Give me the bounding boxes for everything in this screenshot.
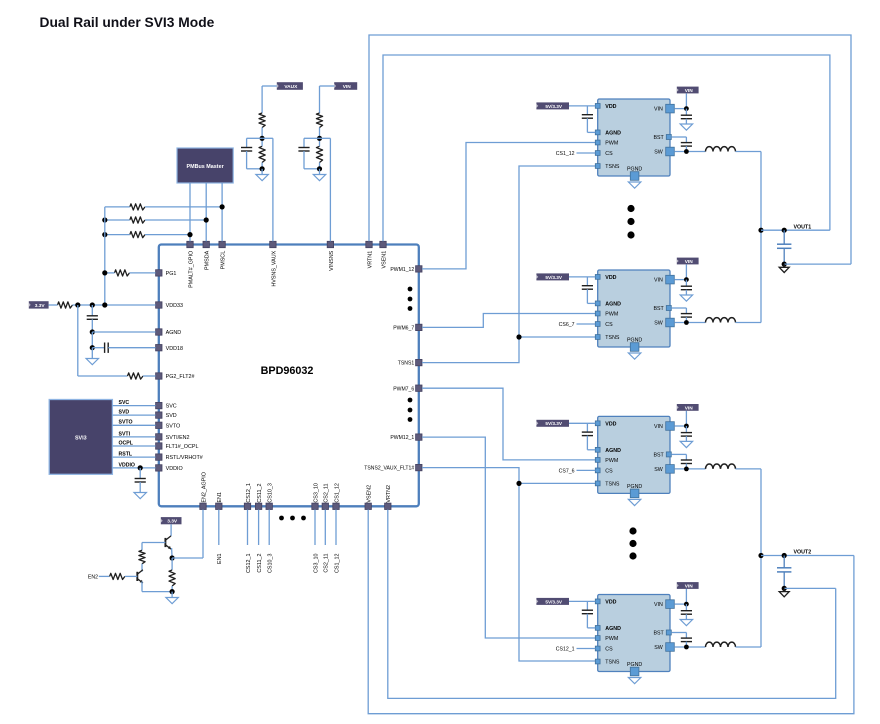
wire to PG2_FLT2# row <box>77 305 79 376</box>
svg-text:VDDIO: VDDIO <box>119 462 135 468</box>
pin PG2_FLT2# <box>156 373 162 379</box>
power stage U2 body <box>598 99 670 176</box>
U3 pin AGND <box>595 301 600 306</box>
svg-text:BST: BST <box>653 631 664 637</box>
power stage U5 body <box>598 595 670 672</box>
wire SVI3 VDDIO <box>112 467 155 469</box>
ground (enable circuit) <box>166 598 178 604</box>
junction VIN node (U2) <box>684 106 689 111</box>
junction VIN bottom node <box>317 166 322 171</box>
wire 3.3V to Q1 collector <box>170 524 172 536</box>
svg-text:5V/3.3V: 5V/3.3V <box>545 599 563 604</box>
junction PMSDA/row2 <box>204 217 209 222</box>
wire VIN lower node <box>319 163 321 169</box>
U3 pin VIN <box>666 275 675 284</box>
net label VAUX (top) <box>277 82 303 90</box>
net label 5V/3.3V (U4) <box>536 420 569 427</box>
capacitor C_OUT2 <box>783 556 785 568</box>
ground (U3 VIN) <box>680 295 692 301</box>
svg-text:CS: CS <box>605 647 613 653</box>
junction VOUT2 cap top <box>782 553 787 558</box>
wire VAUX mid <box>261 128 263 147</box>
wire SVI3 SVC <box>112 405 155 407</box>
resistor R8 (EN2 series) <box>110 573 125 579</box>
pin SVTO <box>156 422 162 428</box>
svg-text:VIN: VIN <box>685 583 694 589</box>
U5 pin AGND <box>595 626 600 631</box>
svg-text:TSNS: TSNS <box>605 660 620 666</box>
svg-text:BST: BST <box>653 453 664 459</box>
wire VIN label to pin <box>685 411 687 426</box>
capacitor C_BST (U4) <box>685 454 687 460</box>
svg-text:EN2: EN2 <box>88 574 98 580</box>
svg-text:VDDIO: VDDIO <box>166 466 183 472</box>
ground (VAUX divider) <box>256 175 268 181</box>
resistor R9 (pull-down) <box>171 558 173 570</box>
U4 pin SW <box>666 465 675 474</box>
capacitor C2 (VDD18) <box>104 343 106 353</box>
svg-text:VINSNS: VINSNS <box>329 250 335 270</box>
wire R8 to Q2 base <box>125 575 137 577</box>
wire EN1 stub <box>218 510 220 546</box>
inductor L1 <box>706 147 736 152</box>
junction bus/row3 <box>102 232 107 237</box>
svg-text:PWM7_6: PWM7_6 <box>393 386 414 392</box>
junction VIN top node <box>317 136 322 141</box>
svg-text:PGND: PGND <box>627 338 642 344</box>
wire VAUX lower node <box>261 163 263 169</box>
wire C1 to AGND row <box>91 319 93 332</box>
junction SW node (U4) <box>684 467 689 472</box>
U3 pin BST <box>666 306 671 311</box>
svg-text:PWM: PWM <box>605 141 618 147</box>
U2 pin BST <box>666 135 671 140</box>
junction bus/PG1 row <box>102 270 107 275</box>
svg-text:VRTN1: VRTN1 <box>367 251 373 269</box>
capacitor VAUX branch <box>247 137 263 139</box>
svg-text:CS1_12: CS1_12 <box>334 554 340 573</box>
svg-text:PMBus Master: PMBus Master <box>187 164 225 170</box>
pin TSNS1 <box>416 359 422 365</box>
svg-text:PGND: PGND <box>627 662 642 668</box>
wire VIN to ground <box>319 169 321 175</box>
pin VSEN2 <box>365 503 371 509</box>
wire Q1 emitter node <box>171 548 174 558</box>
wire VOUT1 return <box>784 263 851 265</box>
svg-text:TSNS1: TSNS1 <box>398 361 415 367</box>
svg-text:Dual Rail under SVI3 Mode: Dual Rail under SVI3 Mode <box>40 15 215 30</box>
ground (U3 PGND) <box>628 353 640 359</box>
wire to ground below C1 <box>91 348 93 359</box>
svg-text:BST: BST <box>653 306 664 312</box>
svg-text:VIN: VIN <box>654 424 663 430</box>
junction VOUT2 cap bottom <box>782 586 787 591</box>
svg-text:PWM1_12: PWM1_12 <box>390 267 414 273</box>
net label VIN (U4) <box>677 404 699 411</box>
junction VOUT2 rail <box>758 553 763 558</box>
wire R6 to PG2_FLT2# pin <box>143 375 156 377</box>
svg-text:CS6_7: CS6_7 <box>559 322 575 328</box>
ground (U4 PGND) <box>628 499 640 505</box>
svg-text:CS12_1: CS12_1 <box>246 554 252 573</box>
wire 5V/3.3V to VDD <box>569 422 595 424</box>
svg-text:SW: SW <box>654 150 663 156</box>
wire SW output <box>674 151 705 153</box>
svg-text:TSNS: TSNS <box>605 335 620 341</box>
ground (VDD33 branch) <box>86 359 98 365</box>
svg-text:TSNS2_VAUX_FLT1#: TSNS2_VAUX_FLT1# <box>364 466 414 472</box>
svg-text:CS1_12: CS1_12 <box>556 151 575 157</box>
U2 pin CS <box>595 151 600 156</box>
net label 5V/3.3V (U3) <box>536 273 569 280</box>
ground (VDDIO) <box>134 493 146 499</box>
wire PWM12_1 net <box>422 437 596 638</box>
svg-text:SVC: SVC <box>166 404 177 410</box>
junction PMSCL/row1 <box>220 204 225 209</box>
wire VIN label to pin <box>685 93 687 108</box>
junction SW node (U5) <box>684 645 689 650</box>
capacitor C3 (VDDIO) <box>135 478 146 480</box>
wire VOUT2 phase rail <box>760 469 762 647</box>
wire VIN label to pin <box>685 589 687 604</box>
junction AGND row <box>90 329 95 334</box>
wire Q2 emitter to ground rail <box>141 582 143 592</box>
wire R2 row to PMSDA <box>105 219 130 221</box>
svg-text:5V/3.3V: 5V/3.3V <box>545 104 563 109</box>
pin SVTI/EN2 <box>156 434 162 440</box>
pin VRTN2 <box>385 503 391 509</box>
wire CS6_7 to CS pin <box>577 323 596 325</box>
wire BST <box>671 307 686 309</box>
pin CS1_12 <box>333 503 339 509</box>
svg-text:RSTL: RSTL <box>119 452 133 458</box>
wire PMALT#_GPIO to PMBus Master <box>189 183 191 241</box>
U2 pin TSNS <box>595 164 600 169</box>
svg-text:VIN: VIN <box>685 88 694 94</box>
capacitor C_VIN (U3) <box>685 280 687 287</box>
U2 pin AGND <box>595 130 600 135</box>
3.3V pull-up bus wire <box>104 207 106 305</box>
junction Q1 emitter <box>170 555 175 560</box>
wire 5V/3.3V to VDD <box>569 276 595 278</box>
capacitor C_BST (U3) <box>685 308 687 314</box>
svg-text:PG1: PG1 <box>166 271 177 277</box>
inductor L3 <box>706 464 736 469</box>
wire VIN label to pin <box>685 264 687 279</box>
svg-text:PGND: PGND <box>627 484 642 490</box>
capacitor C_BST (U5) <box>685 633 687 639</box>
U3 pin SW <box>666 318 675 327</box>
pin PG1 <box>156 270 162 276</box>
svg-text:VIN: VIN <box>685 259 694 265</box>
junction VDDIO decoupling <box>138 465 143 470</box>
pull-up resistor R3 (PMALT#) <box>130 232 145 238</box>
wire C_BST to SW <box>685 642 687 647</box>
wire TSNS1 branch to stage 2 <box>519 336 596 338</box>
capacitor C_VDD (U5) <box>586 601 588 610</box>
U5 pin PWM <box>595 636 600 641</box>
wire SVI3 SVTI <box>112 436 155 438</box>
svg-text:CS11_2: CS11_2 <box>257 554 263 573</box>
wire SVI3 RSTL <box>112 456 155 458</box>
net label 3.3V <box>29 301 49 308</box>
net label VIN (U2) <box>677 87 699 94</box>
wire VOUT1 phase rail <box>760 152 762 323</box>
junction TSNS1 branch <box>516 334 521 339</box>
net label 5V/3.3V (U5) <box>536 598 569 605</box>
svg-text:SVC: SVC <box>119 400 130 406</box>
wire C_VIN to ground <box>685 436 687 441</box>
U3 pin VDD <box>595 275 600 280</box>
wire BST <box>671 136 686 138</box>
wire AGND to pin <box>92 331 155 333</box>
pin VDD33 <box>156 302 162 308</box>
wire C_BST to SW <box>685 464 687 469</box>
wire VAUX to ground <box>261 169 263 175</box>
U4 pin AGND <box>595 447 600 452</box>
pin VRTN1 <box>366 241 372 247</box>
wire SVI3 SVTO <box>112 424 155 426</box>
U2 pin VDD <box>595 104 600 109</box>
pin SVD <box>156 412 162 418</box>
svg-text:TSNS: TSNS <box>605 164 620 170</box>
junction SW node (U3) <box>684 320 689 325</box>
svg-text:CS2_11: CS2_11 <box>324 484 330 503</box>
capacitor C_BST (U2) <box>685 137 687 143</box>
IC U1 BPD96032 body <box>159 245 419 507</box>
svg-text:CS1_12: CS1_12 <box>334 483 340 502</box>
pin EN2_AGPIO <box>200 503 206 509</box>
U4 pin TSNS <box>595 481 600 486</box>
pin VDDIO <box>156 465 162 471</box>
wire C_VIN to ground <box>685 290 687 295</box>
svg-text:VSEN1: VSEN1 <box>381 251 387 269</box>
wire VIN mid <box>319 128 321 147</box>
svg-text:SW: SW <box>654 467 663 473</box>
svg-text:SW: SW <box>654 321 663 327</box>
U3 pin CS <box>595 322 600 327</box>
wire SVI3 OCPL <box>112 445 155 447</box>
wire L1 to output rail <box>736 151 762 153</box>
wire R9 to ground node <box>171 586 173 592</box>
svg-text:VRTN2: VRTN2 <box>386 485 392 503</box>
pin CS2_11 <box>322 503 328 509</box>
wire VOUT2 node <box>761 555 854 557</box>
capacitor C1 (VDD33) <box>87 315 98 317</box>
svg-text:PMSCL: PMSCL <box>221 251 227 270</box>
pin SVC <box>156 402 162 408</box>
U5 pin VIN <box>666 600 675 609</box>
svg-text:CS12_1: CS12_1 <box>556 647 575 653</box>
SVI3 master block <box>49 400 112 475</box>
wire PWM1_12 net <box>422 143 596 269</box>
junction TSNS2 branch <box>516 481 521 486</box>
U5 pin CS <box>595 646 600 651</box>
pin FLT1#_OCPL <box>156 443 162 449</box>
U2 pin PGND <box>630 172 639 181</box>
resistor R7 (Q1 base) <box>139 550 145 563</box>
U4 pin PWM <box>595 458 600 463</box>
net label 3.3V (enable circuit) <box>161 517 182 524</box>
ellipsis dots below U1 bottom edge <box>279 516 284 521</box>
junction bus/row2 <box>102 217 107 222</box>
wire VOUT1 node <box>761 229 830 231</box>
transistor Q2 <box>136 572 138 581</box>
U2 pin PWM <box>595 140 600 145</box>
pin PMALT#_GPIO <box>187 241 193 247</box>
resistor VIN upper <box>316 113 322 127</box>
wire PMSCL to PMBus Master <box>221 183 223 241</box>
net label VIN (U3) <box>677 258 699 265</box>
U4 pin VDD <box>595 421 600 426</box>
U5 pin PGND <box>630 667 639 676</box>
pin VDD18 <box>156 345 162 351</box>
wire CS1_12 stub <box>335 510 337 546</box>
wire C2 to VDD18 pin <box>108 347 155 349</box>
wire 3.3V to VDD33 <box>49 304 58 306</box>
pin PMSCL <box>219 241 225 247</box>
wire CS3_10 stub <box>314 510 316 546</box>
svg-text:CS11_2: CS11_2 <box>257 484 263 503</box>
svg-text:PWM: PWM <box>605 312 618 318</box>
wire BST <box>671 453 686 455</box>
junction VAUX top node <box>260 136 265 141</box>
ellipsis dots inside U1 right side lower <box>408 398 413 403</box>
svg-text:HVSNS_VAUX: HVSNS_VAUX <box>271 250 277 286</box>
svg-text:SVTO: SVTO <box>166 423 181 429</box>
pin VSEN1 <box>380 241 386 247</box>
pin PWM6_7 <box>416 324 422 330</box>
svg-text:TSNS: TSNS <box>605 482 620 488</box>
svg-text:PWM6_7: PWM6_7 <box>393 326 414 332</box>
capacitor C_OUT1 <box>783 230 785 244</box>
svg-text:CS7_6: CS7_6 <box>559 468 575 474</box>
capacitor C_VDD (U3) <box>586 277 588 286</box>
pin TSNS2_VAUX_FLT1# <box>416 464 422 470</box>
U3 pin PWM <box>595 311 600 316</box>
svg-text:SW: SW <box>654 645 663 651</box>
svg-text:VOUT2: VOUT2 <box>794 550 812 556</box>
pin CS11_2 <box>255 503 261 509</box>
U5 pin TSNS <box>595 659 600 664</box>
power stage U3 body <box>598 270 670 347</box>
pin CS10_3 <box>266 503 272 509</box>
ellipsis between stage 1 and 2 <box>627 205 634 212</box>
U4 pin VIN <box>666 422 675 431</box>
svg-text:PWM: PWM <box>605 636 618 642</box>
wire VDD33 decoupling branch <box>91 305 93 316</box>
net label VIN (U5) <box>677 582 699 589</box>
wire VIN label to divider <box>320 85 335 87</box>
junction VDD33 row b <box>90 302 95 307</box>
svg-text:5V/3.3V: 5V/3.3V <box>545 421 563 426</box>
junction SW node (U2) <box>684 149 689 154</box>
wire VSEN2 sense loop <box>368 510 854 714</box>
wire VOUT2 return <box>784 587 836 589</box>
wire Q1 base <box>142 542 165 544</box>
svg-text:AGND: AGND <box>605 448 621 454</box>
wire BST <box>671 632 686 634</box>
svg-text:EN1: EN1 <box>217 492 223 503</box>
wire VSEN1 sense loop <box>383 55 830 241</box>
U3 pin TSNS <box>595 335 600 340</box>
svg-text:5V/3.3V: 5V/3.3V <box>545 275 563 280</box>
wire TSNS2 branch to stage 3 <box>519 482 596 484</box>
svg-text:EN2_AGPIO: EN2_AGPIO <box>201 472 207 503</box>
wire PMSDA to PMBus Master <box>205 183 207 241</box>
wire VDD18 left segment <box>92 347 104 349</box>
svg-text:CS2_11: CS2_11 <box>324 554 330 573</box>
wire L4 to output rail <box>736 646 762 648</box>
svg-text:CS: CS <box>605 322 613 328</box>
wire R1 row to PMSCL <box>105 206 130 208</box>
svg-text:AGND: AGND <box>166 330 182 336</box>
junction VOUT1 cap top <box>782 228 787 233</box>
wire CS7_6 to CS pin <box>577 469 596 471</box>
svg-text:BST: BST <box>653 135 664 141</box>
resistor VIN lower <box>316 146 322 162</box>
svg-text:VDD: VDD <box>605 104 616 110</box>
wire R3 row to PMALT# <box>105 234 130 236</box>
wire SW output <box>674 468 705 470</box>
svg-text:VIN: VIN <box>343 84 352 90</box>
wire L3 to output rail <box>736 468 762 470</box>
inductor L4 <box>706 642 736 647</box>
svg-text:3.3V: 3.3V <box>35 303 46 309</box>
pull-up resistor R2 (PMSDA) <box>130 217 145 223</box>
svg-text:VOUT1: VOUT1 <box>794 224 812 230</box>
svg-text:AGND: AGND <box>605 626 621 632</box>
pin RSTL/VRHOT# <box>156 454 162 460</box>
wire VAUX node to pin column <box>262 137 273 139</box>
wire TSNS1 net <box>422 166 596 363</box>
pin PWM1_12 <box>416 266 422 272</box>
svg-text:PG2_FLT2#: PG2_FLT2# <box>166 374 195 380</box>
resistor R5 (3.3V series) <box>58 302 73 308</box>
svg-text:PMSDA: PMSDA <box>205 250 211 270</box>
svg-text:CS: CS <box>605 469 613 475</box>
pin EN1 <box>216 503 222 509</box>
capacitor VIN branch <box>304 137 320 139</box>
net label 5V/3.3V (U2) <box>536 102 569 109</box>
junction VDD18 row <box>90 345 95 350</box>
wire to ground <box>171 592 173 598</box>
svg-text:SVI3: SVI3 <box>75 435 87 441</box>
pin PMSDA <box>203 241 209 247</box>
junction ground node <box>170 589 175 594</box>
junction VAUX bottom node <box>260 166 265 171</box>
svg-text:CS10_3: CS10_3 <box>268 554 274 573</box>
U2 pin SW <box>666 147 675 156</box>
svg-text:VAUX: VAUX <box>284 84 298 90</box>
net label VIN (top) <box>334 82 357 90</box>
svg-text:AGND: AGND <box>605 302 621 308</box>
pin HVSNS_VAUX <box>270 241 276 247</box>
svg-text:SVTI: SVTI <box>119 431 131 437</box>
ground (VOUT2) <box>783 588 785 591</box>
junction PMALT#/row3 <box>187 232 192 237</box>
pin PWM7_6 <box>416 385 422 391</box>
U4 pin CS <box>595 468 600 473</box>
svg-text:CS10_3: CS10_3 <box>268 483 274 502</box>
wire emitter to EN2_AGPIO pin <box>172 557 203 559</box>
power stage U4 body <box>598 416 670 493</box>
wire SVI3 SVD <box>112 414 155 416</box>
svg-text:VSEN2: VSEN2 <box>367 485 373 503</box>
svg-text:VIN: VIN <box>654 602 663 608</box>
ground (U2 VIN) <box>680 124 692 130</box>
wire SW output <box>674 322 705 324</box>
